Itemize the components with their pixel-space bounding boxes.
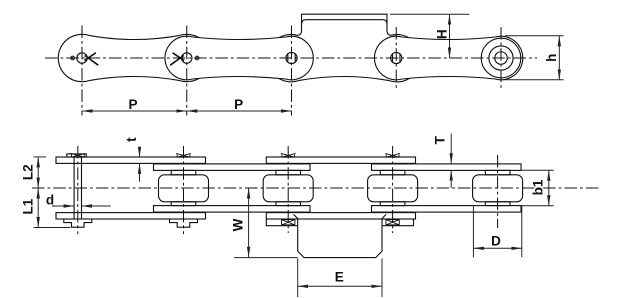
dimension D extension lines	[472, 205, 474, 257]
roller plan at pin 2	[159, 175, 209, 202]
pin 2 bottom washer and end	[170, 219, 198, 227]
dimension P first segment	[82, 110, 187, 112]
cotter bowtie pin 4 bottom	[386, 220, 399, 225]
outer plate top A	[56, 157, 206, 163]
svg-text:d: d	[46, 193, 54, 208]
svg-text:b1: b1	[531, 179, 546, 195]
dimension d left line	[52, 205, 74, 207]
dimension d right line	[82, 205, 111, 207]
roller plan at pin 4	[368, 175, 418, 202]
pin 1 shank plan	[74, 157, 81, 219]
inner link plate pins2-3	[165, 36, 313, 80]
inner plate top A	[154, 164, 311, 171]
pin 5 plan centerline	[497, 155, 499, 228]
svg-text:E: E	[335, 270, 344, 285]
dimension h extension lines	[505, 35, 564, 37]
dimension b1 extension lines	[522, 169, 554, 171]
svg-text:D: D	[491, 234, 501, 249]
dimension W line	[248, 188, 250, 257]
pin 1 circle	[77, 53, 87, 63]
attachment bend chamfer left	[294, 214, 299, 219]
bushing at pin5	[489, 46, 513, 70]
outer link plate pins3-4 with raised attachment top	[267, 14, 420, 82]
pin 1 bottom washer and end	[64, 219, 92, 227]
bushing plan pin 4	[380, 170, 405, 174]
dimension E line	[298, 285, 382, 287]
cotter fork right of pin 1	[84, 53, 98, 65]
pin 2 vertical centerline	[186, 26, 188, 116]
outer plate bottom A	[56, 213, 206, 219]
dimension h line	[558, 36, 560, 80]
inner plate top B	[372, 164, 522, 171]
dimension b1 line	[548, 170, 550, 205]
pin 1 plan centerline	[77, 146, 79, 234]
svg-text:W: W	[231, 218, 246, 231]
svg-text:P: P	[128, 97, 137, 112]
svg-text:L1: L1	[21, 198, 36, 214]
roller plan at pin 5	[473, 175, 523, 202]
attachment tab right (pin 4)	[382, 219, 414, 226]
pin 3 vertical centerline	[291, 26, 293, 116]
dimension H extension line	[390, 13, 469, 15]
svg-text:t: t	[124, 137, 139, 142]
attachment bend chamfer right	[381, 214, 386, 219]
dimension H line	[449, 14, 451, 58]
outer plate top B	[266, 157, 415, 163]
pin 3 flats	[288, 54, 295, 62]
cotter bowtie pin 1 top	[70, 153, 85, 157]
pin 4 plan centerline	[392, 146, 394, 233]
pin 3 plan centerline	[287, 146, 289, 233]
outer plate bottom B	[266, 213, 415, 219]
cotter fork left of pin 2	[170, 53, 184, 65]
roller plan at pin 3	[263, 175, 313, 202]
dimension t line	[139, 148, 141, 158]
pin 2 plan centerline	[183, 146, 185, 234]
dimension L1 extension line	[34, 227, 71, 229]
pin 5 circle	[495, 52, 508, 65]
cotter bowtie pin 2 top	[176, 153, 191, 157]
svg-text:L2: L2	[21, 164, 36, 180]
dimension L2 line	[37, 157, 39, 188]
dimension P second segment	[187, 110, 292, 112]
outer link plate pins1-2	[58, 34, 210, 81]
cotter dot left of pin 1	[71, 56, 75, 60]
attachment bracket plan	[298, 219, 382, 257]
pin 4 circle	[391, 52, 402, 63]
bushing plan pin 3	[276, 170, 301, 174]
dimension L1 line	[37, 188, 39, 228]
dimension W extension line	[234, 257, 298, 259]
cotter bowtie pin 3 top	[281, 153, 296, 157]
inner plate bottom B	[372, 206, 522, 213]
bushing plan pin 5	[485, 170, 510, 174]
cotter bowtie pin 3 bottom	[282, 220, 295, 225]
attachment plate thickness line	[302, 20, 387, 24]
roller at pin5	[481, 38, 521, 78]
bushing plan pin 2	[171, 170, 196, 174]
pin 1 washer top	[67, 154, 87, 157]
svg-text:P: P	[234, 97, 243, 112]
inner plate bottom A	[154, 206, 311, 213]
svg-text:T: T	[433, 135, 448, 144]
pin 5 vertical centerline	[500, 27, 502, 90]
dimension L2 extension line	[34, 156, 47, 158]
dimension E extension lines	[297, 259, 299, 298]
pin 2 circle	[182, 53, 192, 63]
pin 4 vertical centerline	[395, 27, 397, 90]
cotter bowtie pin 4 top	[385, 153, 400, 157]
svg-text:H: H	[434, 29, 449, 39]
cotter dot right of pin 2	[195, 56, 199, 60]
svg-text:h: h	[544, 54, 559, 62]
horizontal centerline top view	[45, 57, 537, 59]
dimension T line	[450, 134, 452, 164]
dimension D line	[473, 247, 521, 249]
pin 4 flats	[393, 54, 400, 62]
attachment tab left (pin 3)	[266, 219, 297, 226]
pin 1 vertical centerline	[81, 26, 83, 116]
pin 3 circle	[286, 52, 297, 63]
inner link plate pins4-5	[374, 36, 522, 80]
horizontal centerline bottom view	[32, 187, 600, 189]
